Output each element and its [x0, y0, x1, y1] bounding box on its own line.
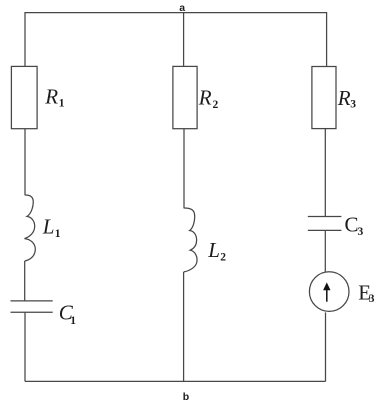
svg-text:3: 3	[358, 226, 364, 238]
svg-text:1: 1	[70, 315, 76, 327]
svg-text:1: 1	[55, 228, 61, 240]
svg-text:2: 2	[220, 251, 226, 263]
svg-text:2: 2	[213, 99, 219, 111]
svg-text:a: a	[179, 2, 185, 14]
svg-text:L: L	[207, 238, 220, 262]
svg-text:C: C	[345, 213, 359, 237]
svg-text:3: 3	[350, 99, 356, 111]
svg-text:3: 3	[369, 293, 375, 305]
svg-text:L: L	[42, 214, 55, 238]
svg-text:R: R	[337, 86, 351, 110]
svg-text:R: R	[198, 85, 212, 109]
svg-text:1: 1	[59, 98, 65, 110]
svg-text:R: R	[44, 84, 58, 108]
svg-text:b: b	[183, 391, 189, 403]
